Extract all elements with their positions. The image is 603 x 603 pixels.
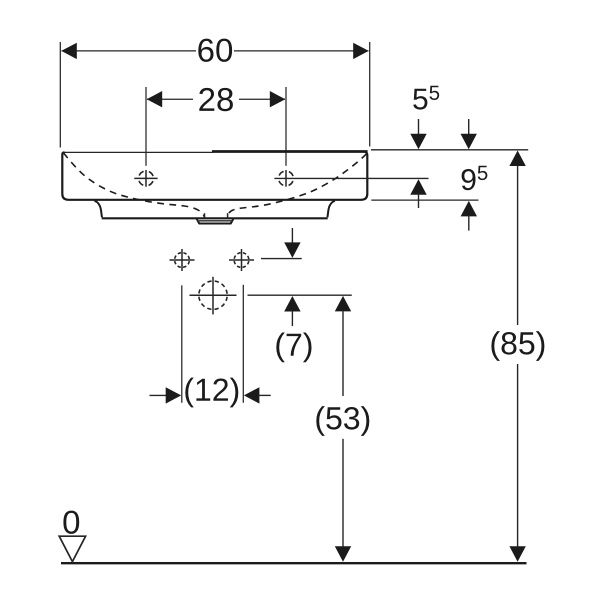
dimension 53 up arrow xyxy=(335,296,351,312)
dimension 7 label xyxy=(276,333,311,363)
dimension 12 left arrow xyxy=(150,394,167,396)
inner bowl hidden edge dashed right xyxy=(228,154,367,219)
dimension 60 extension line right xyxy=(369,42,371,147)
dimension 53 label xyxy=(316,406,369,436)
dimension 60 line xyxy=(62,50,197,52)
dimension 85 line upper xyxy=(517,166,519,325)
washbasin body outline xyxy=(62,152,367,200)
dimension 60 arrowhead right xyxy=(353,43,369,59)
leader line rim level (line A) xyxy=(371,149,528,151)
apron right edge xyxy=(327,201,335,218)
dimension 12 label xyxy=(185,378,238,408)
leader line waste hole level (line D) xyxy=(248,294,352,296)
datum zero label xyxy=(63,511,79,534)
dimension 7 up arrow xyxy=(284,296,300,312)
dimension 9.5 up arrow xyxy=(461,201,477,217)
dimension 12 extension line left xyxy=(181,285,183,403)
fixing hole left crosshair xyxy=(170,259,195,261)
dimension 28 arrowhead right xyxy=(270,91,286,107)
drain boss inner lip line xyxy=(199,220,231,222)
floor line xyxy=(61,562,527,564)
tap hole left crosshair xyxy=(134,177,157,179)
dimension 85 label xyxy=(491,331,544,361)
datum triangle symbol xyxy=(59,536,85,561)
washbasin rim top edge thin left xyxy=(63,151,214,153)
leader line basin bottom level (line C) xyxy=(371,199,478,201)
washbasin rim top edge thick right xyxy=(212,150,368,153)
dimension 28 extension line right xyxy=(285,87,287,166)
tap hole right crosshair xyxy=(285,170,287,187)
dimension 12 right arrow xyxy=(244,387,260,403)
dimension 85 down arrow xyxy=(509,546,525,562)
dimension 53 line lower xyxy=(342,439,344,547)
dimension 28 label xyxy=(199,88,233,111)
dimension 28 arrowhead left xyxy=(147,91,163,107)
drain cone edge tick right xyxy=(227,213,229,218)
dimension 9.5 label xyxy=(462,166,488,190)
inner bowl hidden edge dashed left xyxy=(63,153,204,218)
dimension 7 down arrow xyxy=(291,228,293,244)
apron bottom edge xyxy=(102,217,328,219)
dimension 5.5 label xyxy=(413,86,439,110)
dimension 85 line lower xyxy=(517,364,519,547)
dimension 53 down arrow xyxy=(335,546,351,562)
leader line fixing hole level (line E) xyxy=(261,258,302,260)
dimension 60 arrowhead left xyxy=(61,43,77,59)
dimension 28 extension line left xyxy=(145,87,147,166)
dimension 60 extension line left xyxy=(59,42,61,148)
dimension 5.5 down arrow xyxy=(418,119,420,136)
dimension 9.5 down arrow xyxy=(468,119,470,136)
apron left edge xyxy=(95,201,103,218)
dimension 85 up arrow xyxy=(509,151,525,167)
dimension 28 line xyxy=(147,98,193,100)
dimension 12 extension line right xyxy=(242,285,244,403)
dimension 5.5 up arrow xyxy=(410,179,426,195)
dimension 53 line upper xyxy=(342,311,344,396)
fixing hole right crosshair xyxy=(229,259,254,261)
dimension 60 label xyxy=(198,39,232,62)
waste hole crosshair xyxy=(190,294,237,296)
drain cone edge tick left xyxy=(204,213,206,218)
leader line tap hole level (line B) xyxy=(274,177,428,179)
drain boss outline xyxy=(197,219,234,224)
